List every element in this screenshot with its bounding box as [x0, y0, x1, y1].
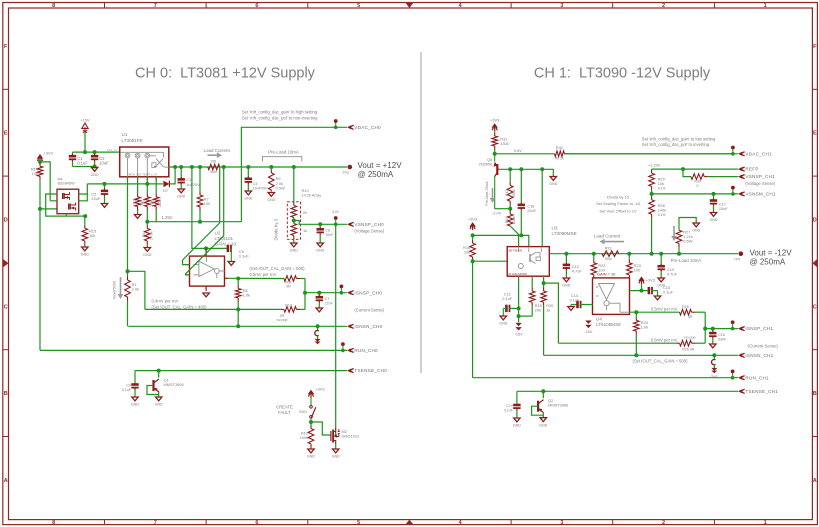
label C4 value — [253, 186, 268, 190]
node VSNSM tap — [650, 192, 654, 196]
svg-text:130k: 130k — [500, 141, 508, 146]
note scaling factor — [596, 201, 641, 206]
resistor R22 — [591, 254, 597, 278]
label R19 value — [535, 308, 541, 313]
svg-text:0.5mV per mA: 0.5mV per mA — [250, 272, 277, 277]
wire TSENSE_CH0 net — [135, 370, 347, 372]
node R16 top — [471, 233, 475, 237]
svg-text:3: 3 — [560, 3, 563, 9]
svg-text:0.8V: 0.8V — [514, 148, 522, 153]
label R5 — [151, 199, 155, 204]
svg-text:D7: D7 — [163, 188, 168, 193]
svg-text:GND: GND — [711, 375, 719, 379]
wire U1 set pin to D7 — [156, 183, 163, 185]
node ISNSP junction — [303, 291, 307, 295]
wire rail to U2 supply — [192, 167, 228, 248]
label R28 tol — [658, 213, 666, 217]
svg-text:0.1uF: 0.1uF — [504, 409, 514, 413]
wire VSNSM_CH1 net — [652, 193, 738, 195]
svg-text:140k: 140k — [658, 208, 666, 213]
label current sense CH1 — [748, 343, 778, 348]
label C10 — [667, 267, 675, 272]
stub coil on ISNSN — [315, 326, 321, 344]
wire REFP to R30 — [683, 169, 691, 177]
label R26 — [682, 348, 689, 352]
testpoint TP4 — [739, 251, 744, 256]
svg-text:50m: 50m — [605, 257, 612, 261]
svg-text:8: 8 — [52, 3, 55, 9]
label M4 value — [58, 182, 76, 186]
port ISNSN_CH0 — [347, 324, 383, 329]
label R21 — [605, 245, 612, 250]
svg-text:LT3081FE: LT3081FE — [122, 138, 143, 143]
svg-text:RUN_CH0: RUN_CH0 — [354, 348, 378, 353]
note load current CH0 — [204, 148, 231, 153]
svg-text:(Voltage Sense): (Voltage Sense) — [354, 229, 384, 234]
label U1 — [122, 132, 128, 137]
svg-text:2k: 2k — [303, 210, 307, 215]
label R12 value — [280, 314, 285, 318]
label R4 — [142, 232, 146, 237]
label R17 — [505, 216, 509, 223]
svg-text:5: 5 — [357, 3, 360, 9]
resistor R29 — [649, 169, 655, 194]
svg-text:Set Vout Offset to 1V: Set Vout Offset to 1V — [599, 209, 637, 214]
arrow load current CH0 — [208, 152, 223, 158]
note dac gain CH0 line1 — [242, 109, 318, 114]
label R9 wattage — [276, 185, 285, 190]
svg-text:U3: U3 — [552, 225, 558, 230]
svg-text:TSENSE_CH1: TSENSE_CH1 — [745, 389, 778, 394]
node R15 top — [83, 214, 87, 218]
wire C1/C2 ground join — [73, 166, 95, 168]
wire kelvin sense A — [183, 167, 220, 265]
svg-text:215R: 215R — [158, 198, 162, 207]
node C7 junction — [317, 291, 321, 295]
wire U2 top pin — [205, 248, 207, 256]
svg-text:ISNSN_CH1: ISNSN_CH1 — [745, 353, 773, 358]
svg-text:10k: 10k — [89, 233, 95, 238]
node R1 top — [126, 269, 130, 273]
testpoint VSNSP_CH0 — [334, 216, 338, 226]
svg-text:100: 100 — [634, 267, 641, 272]
svg-text:GND: GND — [513, 424, 521, 428]
label R2 — [132, 199, 136, 204]
svg-text:12V_In: 12V_In — [107, 148, 117, 152]
svg-text:C: C — [813, 304, 817, 310]
wire Q1 collector — [158, 371, 160, 378]
wire Q1 base loop — [147, 386, 159, 395]
svg-text:Iload/5000: Iload/5000 — [112, 280, 117, 299]
ground under C13 — [657, 278, 665, 288]
label C7 — [325, 297, 330, 301]
svg-text:Set 'mfr_config_dac_pol' to in: Set 'mfr_config_dac_pol' to inverting — [642, 142, 710, 147]
switch SW1 — [310, 398, 316, 423]
svg-text:Divide by 3: Divide by 3 — [274, 218, 279, 240]
ground under C6b — [228, 262, 234, 266]
resistor R3 — [145, 176, 151, 221]
svg-text:10k: 10k — [658, 181, 664, 186]
testpoint VSNSM_CH1 — [731, 186, 735, 196]
label R27 wattage — [683, 239, 692, 244]
capacitor C10 — [658, 254, 665, 278]
capacitor C16 — [518, 169, 525, 235]
node divider tap — [292, 219, 296, 223]
note +1.23V — [648, 162, 661, 167]
svg-text:Set Scaling Factor to -15: Set Scaling Factor to -15 — [596, 201, 641, 206]
wire SW1 to M2 gate — [311, 422, 331, 435]
wire M4 source2 — [50, 200, 57, 202]
bracket pre-load CH0 — [263, 157, 302, 162]
title CH 0 — [135, 66, 316, 82]
label R29 value — [658, 181, 664, 186]
svg-text:R25: R25 — [682, 305, 689, 309]
label R12 — [285, 304, 292, 308]
svg-text:14.2k Array: 14.2k Array — [302, 193, 322, 198]
svg-text:GND: GND — [316, 249, 324, 253]
note 0.5mV CH1 a — [651, 306, 678, 311]
label at 250mA — [358, 170, 394, 179]
label C8 vsnsp value — [325, 233, 334, 237]
capacitor C7 — [316, 293, 323, 308]
wire TSENSE down to C8 — [134, 371, 136, 384]
label at 250mA CH1 — [750, 258, 786, 267]
testpoint TP3 — [348, 165, 353, 170]
svg-text:+1.23V: +1.23V — [648, 162, 661, 167]
svg-text:0.1uF: 0.1uF — [570, 297, 581, 302]
svg-text:GND: GND — [562, 284, 570, 288]
label R1 value — [132, 287, 139, 292]
label R6 — [211, 159, 216, 164]
svg-text:2N3906: 2N3906 — [479, 162, 493, 167]
ground under C18 — [710, 344, 716, 348]
svg-text:VSNSP_CH0: VSNSP_CH0 — [354, 222, 384, 227]
note no pop CH1 — [685, 336, 696, 340]
power +3V3 U4 symbol — [638, 276, 655, 284]
svg-text:7: 7 — [154, 520, 157, 526]
node 0.8V — [493, 152, 497, 156]
svg-text:R32: R32 — [556, 145, 563, 150]
label C1 value — [77, 161, 88, 166]
wire Q2 collector — [542, 391, 544, 398]
label U2 gain — [215, 242, 237, 247]
transistor Q2 MMST3906 — [538, 400, 544, 413]
testpoint VDAC_CH1 — [731, 146, 735, 156]
wire U1 pin1 down to R1 — [127, 176, 129, 271]
label R3 — [142, 199, 146, 204]
svg-text:22nF: 22nF — [325, 301, 334, 305]
svg-text:ISNSN_CH0: ISNSN_CH0 — [354, 324, 382, 329]
testpoint RUN_CH1 — [731, 370, 735, 380]
transistor Q5 2N3906 — [494, 154, 500, 209]
resistor R8 — [235, 279, 241, 327]
port VSNSM_CH1 — [738, 192, 776, 197]
ground under C14 — [568, 307, 574, 311]
label R32 — [556, 145, 563, 150]
wire VDAC_CH1 net — [564, 153, 738, 155]
svg-text:230k: 230k — [512, 216, 516, 224]
node C6 junction — [318, 222, 322, 226]
label R23 value — [634, 267, 641, 272]
port ISNSP_CH0 — [347, 290, 382, 295]
label R11 — [285, 281, 291, 285]
node R24 bottom — [634, 353, 638, 357]
note pre-load CH0 — [268, 149, 299, 154]
ground under U2 — [203, 293, 209, 297]
label R31 value — [500, 141, 508, 146]
svg-text:+3V3: +3V3 — [315, 387, 324, 392]
capacitor C4 — [245, 167, 252, 191]
label C3 value — [186, 182, 200, 187]
label C15 value — [663, 290, 674, 295]
svg-text:1uF25V: 1uF25V — [186, 182, 200, 187]
wire R19 to -15V node — [519, 315, 533, 317]
op-amp U3 LT3090MSE box — [507, 247, 549, 277]
wire M4 drain2 — [79, 194, 88, 201]
wire M4 source loop — [46, 194, 85, 216]
svg-text:0.5mV per mA: 0.5mV per mA — [651, 337, 678, 342]
resistor R25 — [680, 309, 706, 315]
svg-text:VSNSP_CH1: VSNSP_CH1 — [745, 174, 775, 179]
transistor Q1 MMST3906 — [154, 379, 160, 392]
resistor R1 — [125, 271, 131, 326]
wire kelvin sense B — [186, 167, 224, 275]
resistor R10B 1k — [291, 224, 297, 243]
wire EN line — [473, 235, 529, 246]
svg-text:22uF: 22uF — [91, 196, 100, 201]
svg-text:MMST3906: MMST3906 — [164, 382, 184, 387]
node C18 junction — [711, 327, 715, 331]
svg-text:0: 0 — [697, 184, 699, 188]
svg-text:0.4mV per mA: 0.4mV per mA — [152, 299, 179, 304]
svg-text:GND: GND — [244, 197, 252, 201]
svg-text:7: 7 — [154, 3, 157, 9]
label C8 vsnsp — [325, 229, 330, 233]
svg-text:R4: R4 — [142, 232, 146, 237]
wire M4 to SET line — [87, 183, 156, 185]
svg-text:A: A — [813, 478, 817, 484]
svg-text:24.9k: 24.9k — [149, 231, 153, 240]
label Vout -12V — [750, 248, 793, 257]
svg-text:C19: C19 — [506, 404, 513, 408]
ground under M2 — [332, 449, 340, 459]
wire R1 top feed — [128, 271, 145, 309]
label C2 value — [99, 161, 109, 166]
resistor R27 — [676, 230, 682, 254]
label R9 value — [276, 181, 283, 186]
note divide by 15 — [607, 195, 630, 200]
capacitor C6b stem and ground — [230, 248, 232, 261]
port TSENSE_CH0 — [347, 368, 387, 373]
svg-text:8: 8 — [52, 520, 55, 526]
svg-text:C18: C18 — [718, 333, 725, 337]
resistor R7 — [197, 167, 203, 222]
svg-text:40.2k: 40.2k — [555, 156, 565, 161]
svg-text:Pre-Load 10mA: Pre-Load 10mA — [268, 149, 299, 154]
svg-text:TP4: TP4 — [734, 257, 740, 261]
label C12 — [572, 264, 579, 269]
label C5 value — [91, 196, 100, 201]
testpoint ISNSP_CH0 — [340, 285, 344, 295]
note dac pol CH1 line2 — [642, 142, 710, 147]
svg-text:+3V3: +3V3 — [646, 277, 655, 282]
label R15 value — [89, 233, 95, 238]
label R12 nopop — [277, 318, 288, 322]
note dac pol CH0 line2 — [242, 115, 318, 120]
label R30 — [694, 180, 701, 184]
svg-text:(Set IOUT_CAL_GAIN = 500): (Set IOUT_CAL_GAIN = 500) — [632, 359, 688, 364]
resistor R12 — [145, 307, 305, 313]
svg-text:0.5W: 0.5W — [276, 185, 285, 190]
power +3V3 fault symbol — [308, 387, 325, 398]
port ISNSN_CH1 — [738, 353, 774, 358]
wire R11 to ISNSP — [304, 279, 306, 293]
svg-text:0.5mV per mA: 0.5mV per mA — [651, 306, 678, 311]
label R11 value — [286, 285, 291, 289]
ground under Q2 — [539, 418, 547, 428]
ground under R9 — [267, 193, 275, 203]
wire U2 output — [228, 277, 284, 279]
svg-text:BSS84DW: BSS84DW — [58, 182, 76, 186]
capacitor C11 — [506, 305, 518, 312]
label R24 — [641, 320, 649, 325]
wire U3 to -15V — [518, 276, 520, 322]
svg-text:R6: R6 — [211, 159, 216, 164]
wire TSENSE down to C19 — [516, 391, 518, 404]
svg-text:100: 100 — [204, 201, 211, 206]
title CH 1 — [534, 66, 711, 82]
note pre-load CH1 — [671, 258, 702, 263]
svg-text:+3V3: +3V3 — [490, 118, 499, 123]
svg-text:3: 3 — [560, 520, 563, 526]
label R6 value — [210, 170, 217, 174]
label C18 — [718, 333, 725, 337]
node SET line junctions — [103, 182, 150, 186]
power +15V supply symbol — [80, 118, 90, 133]
note 0.8V — [514, 148, 522, 153]
resistor R28 — [649, 194, 655, 254]
node set line junctions — [145, 220, 202, 224]
label R24 value — [641, 325, 648, 330]
svg-text:4.7uF: 4.7uF — [667, 271, 678, 276]
svg-text:CREATE: CREATE — [276, 405, 293, 410]
resistor R15 — [82, 216, 88, 246]
note vout offset — [599, 209, 637, 214]
svg-text:2.0k: 2.0k — [132, 287, 139, 292]
svg-text:-15V: -15V — [584, 330, 592, 334]
node R30 tap — [681, 167, 685, 171]
label Q5 — [487, 157, 492, 162]
label R17 value — [512, 216, 516, 224]
wire VDAC_CH0 net — [241, 127, 347, 221]
port RUN_CH1 — [738, 375, 769, 380]
node squiggle CH1 — [712, 353, 716, 357]
ground under C19 — [513, 418, 521, 428]
svg-text:C4: C4 — [253, 182, 258, 186]
label C6b — [239, 249, 244, 254]
svg-text:4.0V: 4.0V — [332, 210, 340, 214]
svg-text:4.7uF: 4.7uF — [572, 268, 583, 273]
svg-text:(Voltage Sense): (Voltage Sense) — [745, 181, 775, 186]
wire ISNSN_CH0 net — [128, 325, 347, 327]
svg-text:R17: R17 — [505, 216, 509, 223]
node R16 bottom — [471, 259, 475, 263]
node U2 supply junction — [204, 246, 208, 250]
label R10 value — [302, 193, 322, 198]
note dac gain CH1 line1 — [642, 136, 716, 141]
label R16 value — [464, 249, 470, 254]
svg-text:+15V: +15V — [80, 118, 90, 123]
label R7 value — [204, 201, 211, 206]
capacitor C15 gnd lead — [657, 291, 659, 296]
label C5 — [91, 191, 96, 196]
resistor R10A 2k — [291, 167, 297, 218]
resistor R5 — [153, 176, 159, 221]
label R27 value — [683, 234, 693, 239]
wire ISNSP_CH0 net — [305, 292, 347, 294]
power -15V U3 — [515, 323, 523, 337]
label C17 value — [719, 206, 728, 211]
label 1.25V — [162, 215, 173, 220]
op-amp U2 LTC6101 box — [185, 256, 228, 291]
node +3V3 branch — [38, 160, 42, 164]
diode D7 — [163, 181, 169, 188]
svg-text:U4: U4 — [596, 317, 602, 322]
svg-text:R12: R12 — [285, 304, 292, 308]
svg-text:Divide by 15: Divide by 15 — [607, 195, 630, 200]
wire VSNSP to M2 drain — [335, 224, 337, 428]
wire R27 to gnd — [679, 218, 696, 231]
svg-text:DMG1012: DMG1012 — [342, 434, 360, 439]
node ISNSP CH1 junction — [703, 327, 707, 331]
svg-text:IN ILIM MONO: IN ILIM MONO — [509, 272, 528, 276]
arrow load current CH1 — [600, 239, 625, 245]
label R8 — [243, 288, 248, 293]
label R26 value — [690, 348, 695, 352]
label Vout +12V — [358, 161, 403, 170]
capacitor C17 — [710, 194, 717, 212]
resistor R17 — [507, 209, 513, 226]
stub coil on ISNSN CH1 — [711, 355, 719, 379]
svg-text:20k: 20k — [535, 308, 541, 313]
svg-text:D: D — [4, 218, 8, 224]
svg-text:C: C — [4, 304, 8, 310]
ground under C6 — [316, 243, 324, 253]
svg-text:(Set IOUT_CAL_GAIN = 500): (Set IOUT_CAL_GAIN = 500) — [250, 266, 306, 271]
resistor R31 — [492, 131, 498, 154]
wire U4 output — [630, 311, 680, 313]
wire Q5 base line — [500, 169, 554, 176]
svg-text:R5: R5 — [151, 199, 155, 204]
testpoint ISNSP_CH1 — [731, 320, 735, 330]
label R18 — [505, 189, 509, 196]
svg-text:+3V3: +3V3 — [468, 217, 477, 222]
svg-text:Pre-bias 20uA: Pre-bias 20uA — [484, 181, 489, 206]
label C19 value — [504, 409, 514, 413]
svg-text:SET EN IN: SET EN IN — [509, 248, 523, 252]
wire input rail to U1 IN — [73, 151, 120, 153]
svg-text:GND: GND — [91, 173, 99, 177]
label Q5 value — [479, 162, 493, 167]
node R8 at R12 line — [236, 307, 240, 311]
capacitor C3 — [178, 167, 185, 189]
wire M4 bottom pin — [65, 214, 67, 216]
svg-text:1: 1 — [764, 520, 767, 526]
label C6b value — [239, 254, 250, 259]
ground under Q1 — [155, 397, 163, 407]
label R7 — [204, 197, 209, 202]
wire +15V to input rail — [84, 132, 86, 153]
